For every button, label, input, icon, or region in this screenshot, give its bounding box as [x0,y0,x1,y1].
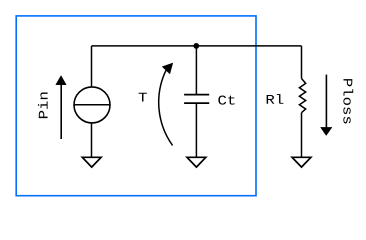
label Rl [267,94,284,104]
wire source bottom [91,123,93,158]
current source I1 [74,87,110,123]
wire source top [91,46,93,87]
arrow T (curved) [159,63,173,146]
label T [139,93,147,102]
label Ct [218,96,234,105]
wire capacitor bottom [195,103,197,157]
arrow Ploss [321,75,332,136]
wire resistor top [301,46,303,79]
arrow Pin [56,76,66,139]
wire resistor bottom [301,113,303,158]
resistor Rl [299,79,305,113]
wire capacitor top [195,46,197,95]
capacitor Ct [184,95,209,104]
wire top horizontal [92,45,302,47]
ground (resistor) [292,157,311,167]
label Ploss [343,79,353,123]
ground (capacitor) [187,157,206,167]
boundary rectangle [16,16,256,196]
ground (source) [82,157,101,167]
label Pin [38,93,48,119]
junction node [193,43,199,49]
